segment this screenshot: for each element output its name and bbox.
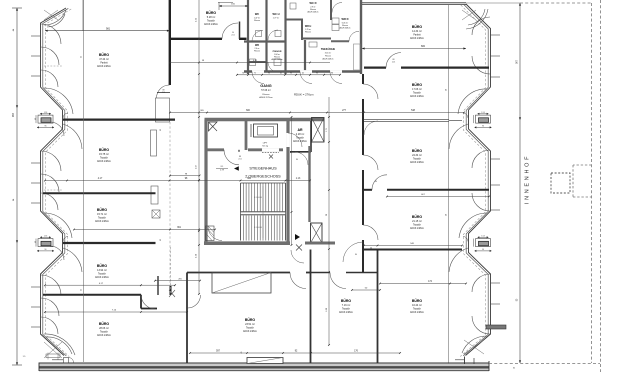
svg-text:AR: AR bbox=[297, 128, 303, 132]
svg-text:Teppich: Teppich bbox=[98, 218, 107, 220]
svg-text:746 kg: 746 kg bbox=[262, 145, 268, 147]
svg-text:Teppich: Teppich bbox=[100, 332, 109, 334]
svg-text:ADUK 248cm: ADUK 248cm bbox=[308, 11, 319, 14]
svg-text:52: 52 bbox=[81, 289, 83, 291]
svg-text:ADUK 248cm: ADUK 248cm bbox=[204, 23, 218, 26]
svg-text:88: 88 bbox=[163, 90, 165, 92]
svg-text:Teppich: Teppich bbox=[296, 138, 305, 140]
svg-text:BÜRO: BÜRO bbox=[412, 215, 423, 219]
svg-text:2.9 m²: 2.9 m² bbox=[310, 5, 316, 8]
svg-text:ADUK 248cm: ADUK 248cm bbox=[410, 161, 424, 164]
svg-text:Teppich: Teppich bbox=[413, 225, 422, 227]
svg-text:1.76 m²: 1.76 m² bbox=[305, 28, 311, 31]
svg-text:ADUK 248cm: ADUK 248cm bbox=[323, 57, 334, 60]
svg-text:13.94 m²: 13.94 m² bbox=[97, 269, 107, 272]
svg-text:BÜRO: BÜRO bbox=[206, 11, 217, 15]
svg-text:90: 90 bbox=[35, 118, 37, 120]
svg-text:15.71 m²: 15.71 m² bbox=[97, 213, 107, 216]
svg-text:90: 90 bbox=[35, 241, 37, 243]
svg-text:Teppich: Teppich bbox=[342, 309, 351, 311]
svg-text:90: 90 bbox=[232, 32, 234, 34]
svg-text:Fliesen: Fliesen bbox=[325, 55, 331, 57]
svg-text:3.16 m²: 3.16 m² bbox=[325, 51, 332, 54]
svg-text:1.53: 1.53 bbox=[44, 112, 47, 114]
svg-text:Teppich: Teppich bbox=[207, 21, 216, 23]
svg-text:58: 58 bbox=[446, 89, 448, 91]
svg-text:ADUK 248cm: ADUK 248cm bbox=[97, 160, 111, 163]
svg-text:RDUK = 276cm: RDUK = 276cm bbox=[294, 93, 314, 97]
svg-text:28.06 m²: 28.06 m² bbox=[99, 327, 109, 330]
svg-text:2.01: 2.01 bbox=[238, 159, 241, 161]
svg-text:Fliesen: Fliesen bbox=[254, 51, 260, 53]
svg-text:Parkett: Parkett bbox=[100, 62, 108, 65]
svg-text:WC: WC bbox=[255, 12, 259, 16]
svg-text:Teppich: Teppich bbox=[413, 93, 422, 95]
svg-text:47.44 m²: 47.44 m² bbox=[99, 58, 109, 61]
svg-text:Teppich: Teppich bbox=[413, 309, 422, 311]
svg-text:4.17: 4.17 bbox=[98, 178, 103, 180]
svg-text:Teppich: Teppich bbox=[100, 158, 109, 160]
svg-text:41: 41 bbox=[280, 72, 282, 74]
svg-text:BÜRO: BÜRO bbox=[99, 322, 110, 326]
svg-text:57.06 m²: 57.06 m² bbox=[261, 89, 271, 92]
svg-text:96: 96 bbox=[482, 125, 484, 127]
svg-text:1.53: 1.53 bbox=[44, 235, 47, 237]
svg-text:52: 52 bbox=[81, 56, 83, 58]
svg-text:BÜRO: BÜRO bbox=[412, 83, 423, 87]
svg-text:2.6 m²: 2.6 m² bbox=[254, 47, 259, 50]
svg-text:967: 967 bbox=[12, 112, 15, 117]
svg-text:ADUK 248cm: ADUK 248cm bbox=[410, 37, 424, 40]
svg-text:2.01: 2.01 bbox=[392, 62, 395, 64]
svg-text:BÜRO: BÜRO bbox=[412, 299, 423, 303]
svg-text:981: 981 bbox=[106, 27, 111, 30]
svg-text:ADUK 276cm: ADUK 276cm bbox=[259, 96, 272, 99]
svg-text:96: 96 bbox=[45, 125, 47, 127]
svg-text:1.13: 1.13 bbox=[296, 178, 301, 180]
svg-text:BÜRO: BÜRO bbox=[99, 148, 110, 152]
svg-text:ADUK 248cm: ADUK 248cm bbox=[95, 276, 109, 279]
svg-text:ADUK 248cm: ADUK 248cm bbox=[272, 58, 283, 61]
svg-text:WC D: WC D bbox=[310, 1, 317, 5]
svg-text:71: 71 bbox=[254, 72, 256, 74]
svg-text:WR: WR bbox=[255, 44, 259, 47]
svg-text:24.34 m²: 24.34 m² bbox=[412, 154, 422, 157]
svg-text:BÜRO: BÜRO bbox=[99, 53, 110, 57]
svg-text:ADUK 248cm: ADUK 248cm bbox=[410, 311, 424, 314]
svg-text:ADUK 248cm: ADUK 248cm bbox=[97, 334, 111, 337]
svg-text:BÜRO: BÜRO bbox=[97, 264, 108, 268]
svg-text:B 15.6/30: B 15.6/30 bbox=[254, 227, 262, 229]
svg-text:80: 80 bbox=[296, 159, 298, 161]
svg-text:50: 50 bbox=[370, 247, 372, 249]
svg-text:Fliesen: Fliesen bbox=[305, 32, 311, 34]
svg-text:96: 96 bbox=[482, 249, 484, 251]
svg-text:58: 58 bbox=[446, 214, 448, 216]
svg-text:7.16 m²: 7.16 m² bbox=[342, 304, 351, 307]
svg-text:ADUK 248cm: ADUK 248cm bbox=[339, 311, 353, 314]
svg-text:STIEGENHAUS: STIEGENHAUS bbox=[249, 166, 277, 170]
svg-text:WR D: WR D bbox=[342, 17, 349, 21]
svg-text:WC H: WC H bbox=[273, 12, 280, 16]
svg-text:16.44 m²: 16.44 m² bbox=[412, 304, 422, 307]
svg-text:45: 45 bbox=[241, 352, 243, 354]
svg-text:INNENHOF: INNENHOF bbox=[525, 154, 531, 204]
svg-text:17.06 m²: 17.06 m² bbox=[412, 88, 422, 91]
svg-text:Parkett: Parkett bbox=[413, 34, 421, 37]
svg-text:LIFT: LIFT bbox=[263, 143, 268, 145]
svg-text:ADUK 248cm: ADUK 248cm bbox=[293, 140, 307, 143]
svg-text:1.53: 1.53 bbox=[481, 235, 484, 237]
svg-text:BÜRO: BÜRO bbox=[245, 318, 256, 322]
svg-text:88: 88 bbox=[393, 59, 395, 61]
svg-text:80: 80 bbox=[375, 181, 377, 183]
svg-text:ADUK 248cm: ADUK 248cm bbox=[97, 65, 111, 68]
svg-text:1.47 m²: 1.47 m² bbox=[254, 16, 261, 19]
svg-text:1.53: 1.53 bbox=[481, 112, 484, 114]
svg-text:52: 52 bbox=[160, 129, 162, 131]
svg-text:2.01: 2.01 bbox=[162, 92, 165, 94]
svg-text:41: 41 bbox=[302, 72, 304, 74]
svg-text:ADUK 248cm: ADUK 248cm bbox=[95, 220, 109, 223]
svg-text:BÜRO: BÜRO bbox=[412, 149, 423, 153]
svg-text:ADUK 348cm: ADUK 348cm bbox=[340, 27, 351, 30]
svg-text:6.05 m²: 6.05 m² bbox=[342, 21, 349, 24]
svg-text:93: 93 bbox=[316, 72, 318, 74]
svg-text:Fliesen: Fliesen bbox=[262, 94, 270, 96]
svg-text:2.28 m²: 2.28 m² bbox=[296, 133, 305, 136]
svg-text:Teppich: Teppich bbox=[413, 159, 422, 161]
svg-text:682: 682 bbox=[421, 45, 426, 48]
svg-text:1.84 m²: 1.84 m² bbox=[274, 53, 280, 56]
svg-text:ADUK 248cm: ADUK 248cm bbox=[410, 95, 424, 98]
svg-text:GANG: GANG bbox=[260, 84, 271, 88]
svg-text:BÜRO: BÜRO bbox=[97, 208, 108, 212]
svg-text:ADUK 248cm: ADUK 248cm bbox=[243, 330, 257, 333]
svg-text:76: 76 bbox=[242, 72, 244, 74]
svg-text:Teppich: Teppich bbox=[98, 274, 107, 276]
svg-text:2.01: 2.01 bbox=[231, 35, 234, 37]
svg-text:1.77 m²: 1.77 m² bbox=[273, 16, 280, 19]
svg-text:52: 52 bbox=[160, 239, 162, 241]
svg-text:14.34 m²: 14.34 m² bbox=[412, 30, 422, 33]
svg-text:93: 93 bbox=[268, 72, 270, 74]
svg-text:80: 80 bbox=[355, 254, 357, 256]
svg-text:23.51 m²: 23.51 m² bbox=[245, 323, 255, 326]
svg-text:ADUK 248cm: ADUK 248cm bbox=[410, 227, 424, 230]
svg-text:WR H: WR H bbox=[305, 25, 312, 28]
svg-text:PISSOIR: PISSOIR bbox=[273, 51, 282, 53]
svg-text:96: 96 bbox=[331, 72, 333, 74]
svg-text:21.15 m²: 21.15 m² bbox=[412, 220, 422, 223]
svg-text:15.75 m²: 15.75 m² bbox=[99, 153, 109, 156]
svg-text:BÜRO: BÜRO bbox=[412, 25, 423, 29]
svg-text:93: 93 bbox=[290, 72, 292, 74]
svg-text:Teppich: Teppich bbox=[246, 328, 255, 330]
svg-text:5.28 m²: 5.28 m² bbox=[207, 16, 216, 19]
svg-text:B 15.6/30: B 15.6/30 bbox=[254, 197, 262, 199]
svg-text:Fliesen: Fliesen bbox=[254, 20, 260, 22]
svg-text:88: 88 bbox=[239, 156, 241, 158]
svg-text:96: 96 bbox=[45, 249, 47, 251]
svg-text:BÜRO: BÜRO bbox=[341, 299, 352, 303]
